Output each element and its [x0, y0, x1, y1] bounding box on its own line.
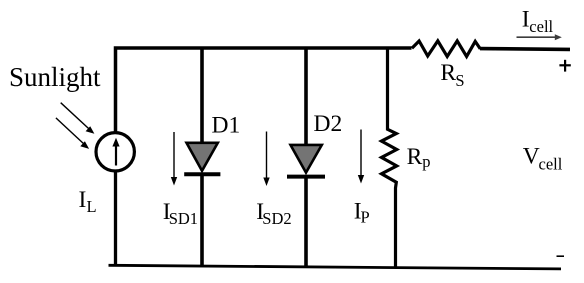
wire: D2 branch top — [304, 48, 308, 146]
wire: top right to + terminal — [480, 47, 570, 51]
svg-text:D1: D1 — [212, 113, 241, 139]
wire: left branch below current source — [114, 171, 117, 266]
sunlight arrow upper — [61, 103, 95, 134]
wire: D2 branch bottom — [304, 177, 308, 268]
svg-text:SD2: SD2 — [262, 209, 291, 228]
svg-text:Sunlight: Sunlight — [9, 62, 101, 92]
svg-text:P: P — [361, 208, 370, 227]
svg-text:R: R — [407, 144, 423, 170]
resistor Rs (series) zigzag — [412, 41, 480, 57]
diode D2 cathode bar — [287, 175, 325, 179]
svg-text:SD1: SD1 — [169, 209, 198, 228]
svg-text:R: R — [440, 60, 456, 86]
svg-text:S: S — [455, 71, 464, 90]
diode D2 triangle — [291, 145, 322, 173]
wire: D1 branch bottom — [200, 174, 204, 267]
diode D1 cathode bar — [184, 172, 220, 176]
plus terminal — [559, 60, 570, 72]
svg-text:p: p — [422, 152, 430, 171]
svg-text:V: V — [523, 144, 540, 170]
wire: bottom bus — [109, 265, 562, 269]
current arrow I_cell — [517, 34, 562, 40]
current arrow I_SD2 — [263, 132, 269, 187]
svg-text:cell: cell — [539, 154, 563, 173]
svg-text:I: I — [79, 187, 87, 213]
current source I_L circle with up arrow — [96, 133, 134, 171]
current arrow I_SD1 — [171, 132, 177, 186]
wire: D1 branch top — [200, 48, 204, 144]
minus terminal — [557, 255, 565, 257]
wire: top bus from left corner to Rs — [116, 48, 412, 132]
svg-text:D2: D2 — [314, 111, 343, 137]
svg-text:cell: cell — [529, 17, 553, 36]
svg-text:L: L — [87, 197, 97, 216]
diode D1 triangle — [187, 143, 218, 171]
sunlight arrow lower — [56, 118, 89, 149]
resistor Rp (shunt) with leads — [382, 48, 397, 268]
current arrow I_P — [358, 130, 364, 184]
